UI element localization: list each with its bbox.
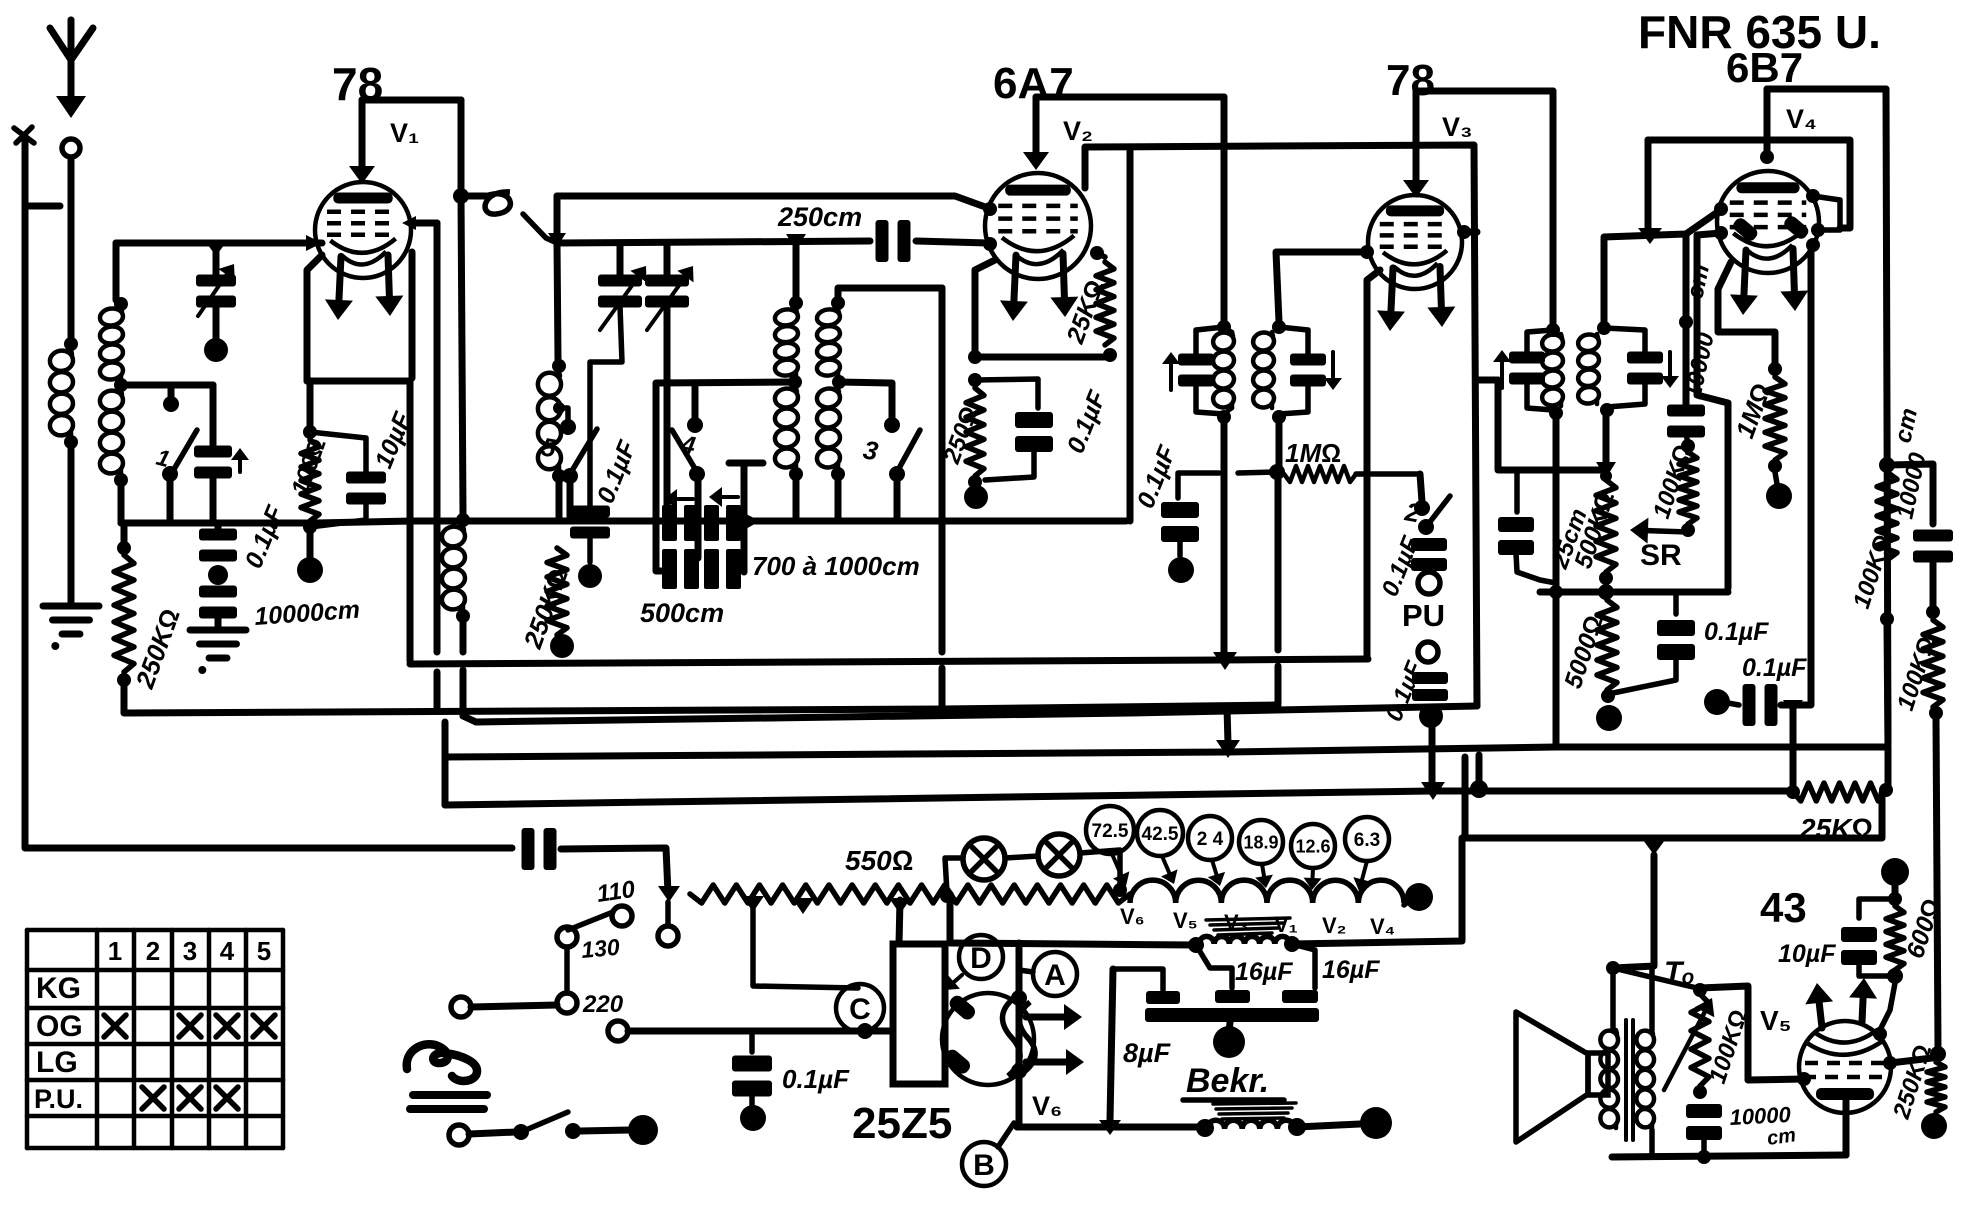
capacitor C2 padder xyxy=(194,446,249,479)
arrow 42.5 xyxy=(1161,856,1178,884)
capacitor C22 01uF xyxy=(732,1056,772,1097)
svg-text:SR: SR xyxy=(1640,539,1682,572)
label 0.1uF band xyxy=(592,436,642,507)
node V5 right xyxy=(1883,1056,1897,1070)
coil L6b xyxy=(816,387,841,469)
svg-text:18.9: 18.9 xyxy=(1243,832,1278,852)
label 16uF b xyxy=(1322,956,1380,984)
resistor R4 25K xyxy=(1096,262,1114,345)
wire C24 down xyxy=(1701,1138,1707,1157)
node x1556 y592 xyxy=(1549,585,1563,599)
resistor R5 250 xyxy=(966,388,984,476)
wire trimmerB down xyxy=(664,306,671,521)
label 43 xyxy=(1760,884,1807,931)
wire B+ stem xyxy=(1892,884,1899,893)
label 250KOhm R3 xyxy=(517,565,574,653)
coil T1 secondary xyxy=(1252,331,1275,409)
node avc top junction xyxy=(1879,457,1895,473)
wire rail2 to L4 xyxy=(557,243,558,360)
node R9 bottom xyxy=(1768,459,1782,473)
circled 42.5 xyxy=(1137,810,1183,856)
wire T1p cap leads xyxy=(1196,327,1224,414)
svg-text:3: 3 xyxy=(183,936,197,966)
wire switch5 down xyxy=(567,482,574,521)
node B+ terminal xyxy=(1881,858,1909,886)
node switch5 bottom contact xyxy=(562,468,578,484)
gang cap top row xyxy=(662,505,741,541)
label 250cm xyxy=(777,202,862,232)
tube V2 6A7 xyxy=(985,173,1091,279)
switch power xyxy=(449,1112,658,1145)
ground antenna xyxy=(43,606,99,650)
label V2 xyxy=(1063,116,1093,146)
label 0.1uF V4d2 xyxy=(1742,654,1807,682)
wire 16uF3 lead xyxy=(1292,944,1315,988)
wire x1604 to T2s xyxy=(1601,239,1608,324)
svg-text:1MΩ: 1MΩ xyxy=(1285,438,1341,468)
wire V2 avc hang xyxy=(1127,147,1134,521)
wire rail1 V1 to V2 xyxy=(461,192,557,243)
node L3 bottom xyxy=(456,609,470,623)
wire V1 box top xyxy=(362,97,461,104)
tap 550 a xyxy=(742,896,764,912)
node switch2 bottom xyxy=(1418,519,1434,535)
node filter terminal xyxy=(1213,1026,1245,1058)
lamp 2 xyxy=(1038,834,1080,876)
wire A stub xyxy=(1019,970,1033,972)
arrow 18.9 xyxy=(1255,864,1273,888)
label 6A7 xyxy=(993,59,1074,108)
wire C11 stem xyxy=(1177,539,1183,556)
tube V4 6B7 xyxy=(1717,171,1819,273)
table X OG3 xyxy=(179,1015,201,1037)
node L2 bottom xyxy=(114,473,128,487)
wire V1 cathode down xyxy=(307,255,322,381)
node V6 T xyxy=(1099,1120,1121,1135)
capacitor C16 25cm stem xyxy=(1514,470,1520,512)
node switch2 top xyxy=(1414,500,1430,516)
wire cathode box top xyxy=(307,378,410,385)
coil L4 xyxy=(536,371,562,471)
label 220 xyxy=(582,991,624,1018)
wire C19 left xyxy=(1728,703,1739,705)
wire x1648 down xyxy=(1645,140,1652,230)
wire L5 tap left xyxy=(656,382,795,467)
node R1 top xyxy=(117,541,131,555)
wire PU feed xyxy=(1420,474,1422,502)
arrow 72.5 xyxy=(1112,854,1129,886)
wire R1 top xyxy=(121,523,128,550)
svg-text:V₅: V₅ xyxy=(1760,1005,1792,1036)
node R9 terminal xyxy=(1766,483,1792,509)
circle 220 xyxy=(557,993,577,1013)
node cathode junction1 xyxy=(968,350,982,364)
node bus1 T1 junction xyxy=(1213,652,1237,670)
circle 110 xyxy=(612,906,632,926)
circle 130 xyxy=(557,927,577,947)
label 10000cm right xyxy=(1889,406,1931,522)
node R14 terminal xyxy=(1921,1113,1947,1139)
node V2 cathode terminal xyxy=(964,485,988,509)
power plug squiggle xyxy=(407,1044,477,1081)
wire L6 to rail3 xyxy=(835,480,842,521)
node L6 top xyxy=(831,296,845,310)
label C.1uF xyxy=(1704,618,1769,646)
node C24 rail xyxy=(1697,1150,1711,1164)
arrow 24 xyxy=(1208,860,1225,886)
label V4 xyxy=(1786,104,1817,134)
capacitor C1 trimmer xyxy=(196,264,236,316)
node A pin1 xyxy=(1011,990,1027,1006)
label 0.1uF C11 xyxy=(1132,441,1182,512)
coil L2b xyxy=(99,389,125,475)
wire V3 box top xyxy=(1416,88,1553,95)
capacitor C6 01uF xyxy=(570,506,610,539)
speaker coil left xyxy=(1599,1029,1619,1128)
capacitor C17 01uF xyxy=(1657,620,1695,660)
wire V1 anode top xyxy=(349,100,375,184)
node L1 bottom xyxy=(64,435,78,449)
label 6B7 xyxy=(1726,44,1803,91)
table X PU4 xyxy=(216,1087,238,1109)
heater arrow 25Z5 a xyxy=(1026,1004,1082,1030)
node R1 bottom xyxy=(117,673,131,687)
node L6 bottom xyxy=(831,467,845,481)
node L3 top xyxy=(456,513,470,527)
coil L2a xyxy=(99,307,124,381)
wire L6 tap right xyxy=(839,382,892,418)
label 100KOhm SR xyxy=(1648,441,1697,521)
wire T1s down xyxy=(1276,423,1283,466)
svg-text:0.1µF: 0.1µF xyxy=(782,1064,850,1094)
switch 4 blade xyxy=(672,430,698,472)
label 10uF xyxy=(370,408,418,472)
node vol bottom xyxy=(1693,1085,1707,1099)
wire 1M left branch xyxy=(1178,472,1277,498)
svg-text:1: 1 xyxy=(108,936,122,966)
wire rail2 xyxy=(557,241,870,243)
x mark top-left xyxy=(14,127,34,143)
wire tap branch down xyxy=(210,385,217,448)
wire left mains xyxy=(471,1005,557,1007)
node vol top xyxy=(1693,983,1707,997)
plate 16uF3 xyxy=(1282,990,1318,1003)
capacitor C14 T2p xyxy=(1493,350,1545,388)
node 5000 top junction xyxy=(1598,584,1614,600)
wire T1 feed xyxy=(1221,97,1228,322)
node bus3 triangle xyxy=(1216,740,1240,758)
wire T2s to pot xyxy=(1603,416,1610,466)
label 5000Ohm xyxy=(1559,612,1609,692)
wire C17 bottom xyxy=(1613,656,1676,693)
node 550 d xyxy=(940,889,954,903)
table row PU xyxy=(34,1084,83,1114)
gang cap arrows xyxy=(664,487,738,509)
node heater end xyxy=(1405,883,1433,911)
svg-text:6.3: 6.3 xyxy=(1354,830,1380,851)
table row LG xyxy=(36,1046,78,1079)
label 0.1uF left xyxy=(240,501,290,572)
node terminal under R2 xyxy=(297,557,323,583)
table row OG xyxy=(36,1010,83,1043)
arcs 25Z5 xyxy=(1002,998,1035,1076)
node C6 terminal xyxy=(578,564,602,588)
tube V3 78 xyxy=(1368,195,1462,289)
svg-text:110: 110 xyxy=(595,876,637,908)
wire V3 screen stub xyxy=(1464,229,1477,236)
svg-text:43: 43 xyxy=(1760,884,1807,931)
wire anode rail xyxy=(1612,1155,1846,1157)
svg-text:LG: LG xyxy=(36,1046,78,1079)
wire rail1 main xyxy=(557,196,988,208)
svg-text:V₁: V₁ xyxy=(390,118,419,148)
resistor R6 1M horizontal xyxy=(1284,466,1420,482)
label To xyxy=(1664,956,1695,989)
wire C4 bottom lead xyxy=(310,505,366,527)
label 10000cm left xyxy=(253,596,360,631)
label 10000cm V4g xyxy=(1679,262,1719,402)
wire C1 to dot xyxy=(213,306,220,338)
arrow D xyxy=(945,975,962,990)
wiper vol xyxy=(1664,998,1714,1090)
lamp 1 xyxy=(963,838,1005,880)
label 250KOhm R1 xyxy=(129,605,186,693)
heater chain bumps xyxy=(1130,880,1404,903)
wire top rail left box xyxy=(116,240,322,247)
plate 25Z5 b xyxy=(942,1047,973,1076)
node R11 bottom xyxy=(1880,612,1894,626)
wire osc return x942 xyxy=(939,288,946,708)
heater arrows V3 xyxy=(1377,266,1455,331)
wire det stub xyxy=(1477,377,1498,384)
svg-text:16µF: 16µF xyxy=(1235,958,1293,986)
label V5 xyxy=(1760,1005,1792,1036)
wire L4 to rail3 xyxy=(556,482,563,521)
plate common xyxy=(1145,1008,1319,1022)
node switch3 bottom contact xyxy=(889,466,905,482)
node cathode junction2 xyxy=(968,373,982,387)
node R2 bottom xyxy=(303,520,317,534)
node bus4 x1479 dot xyxy=(1470,780,1488,798)
label 130 xyxy=(580,934,621,963)
wire L6 top rail xyxy=(838,288,942,303)
capacitor C23 10uF xyxy=(1841,927,1877,965)
node V3 screen xyxy=(1457,225,1471,239)
wire switch1 down xyxy=(167,480,174,522)
node R5 bottom xyxy=(968,475,982,489)
label V2 chain xyxy=(1322,913,1346,938)
heater arrow 25Z5 b xyxy=(1026,1049,1084,1075)
node C22 terminal xyxy=(740,1105,766,1131)
heater arrows V4 xyxy=(1730,249,1808,315)
node R7 bottom xyxy=(1601,689,1615,703)
node switch1 bottom contact xyxy=(162,466,178,482)
wire T1p down to bus1 xyxy=(1221,423,1228,660)
resistor R10 100K xyxy=(1923,620,1943,707)
wire 1M down to bus2 xyxy=(1275,478,1282,703)
node V2 screen dot xyxy=(1090,246,1104,260)
node T2s bottom xyxy=(1600,403,1614,417)
wire switch4 down xyxy=(695,480,702,558)
bekr coil xyxy=(1207,1120,1295,1129)
to coil right xyxy=(1635,1029,1655,1128)
resistor R2 100 xyxy=(301,440,319,521)
node bekr right xyxy=(1288,1118,1306,1136)
wire To feed xyxy=(1613,855,1654,968)
wire 16uF2 lead xyxy=(1196,945,1232,988)
wire R2 stem xyxy=(307,381,314,426)
svg-text:10µF: 10µF xyxy=(1778,940,1836,968)
wire L3 to bus2b xyxy=(463,622,476,722)
plate 25Z5 a xyxy=(947,993,978,1022)
plate 16uF2 xyxy=(1215,990,1250,1003)
table header 1 xyxy=(108,936,122,966)
svg-text:PU: PU xyxy=(1402,598,1445,633)
wire V5 right stub xyxy=(1890,1058,1932,1063)
wire 10uF bottom xyxy=(1859,963,1887,976)
wire trimmerA stem xyxy=(617,243,624,276)
label V1 xyxy=(390,118,419,148)
wire V4 grid line xyxy=(1604,209,1722,237)
node T1 primary bottom xyxy=(1217,410,1231,424)
node V4 right pin1 xyxy=(1806,189,1820,203)
wire V2 cathode xyxy=(975,260,995,352)
table X OG1 xyxy=(104,1015,126,1037)
svg-text:KG: KG xyxy=(36,972,81,1005)
wire bekr right xyxy=(1297,1124,1360,1127)
potentiometer 100K vol xyxy=(1691,994,1709,1086)
wire V4 rail2 xyxy=(1648,140,1850,228)
table X OG4 xyxy=(216,1015,238,1037)
wire V6 line xyxy=(1017,1124,1203,1127)
capacitor C9 T1p xyxy=(1162,352,1214,390)
wire A line xyxy=(1016,943,1023,1124)
circled D xyxy=(959,935,1003,979)
wire C22 tail xyxy=(749,1093,755,1106)
svg-text:130: 130 xyxy=(580,934,621,963)
node T2 primary top xyxy=(1546,323,1560,337)
wire grid line below bus1 xyxy=(434,672,441,708)
wire V2 grid cap line xyxy=(1085,145,1477,706)
wire V5 anode down xyxy=(1843,1100,1850,1155)
svg-text:V₂: V₂ xyxy=(1322,913,1346,938)
wire avc down xyxy=(1887,625,1888,744)
label V5 chain xyxy=(1173,908,1198,933)
table grid xyxy=(27,930,283,1148)
resistor R3 250K xyxy=(547,548,567,635)
label 0.1uF V2k xyxy=(1062,386,1112,457)
circle PU jack bottom xyxy=(1418,642,1438,662)
label 100KOhm r1 xyxy=(1848,531,1897,611)
wire rect out xyxy=(947,896,954,941)
circled 72.5 xyxy=(1086,806,1134,854)
label 500cm xyxy=(640,598,724,628)
node V4 right pin2 xyxy=(1811,223,1825,237)
switch 3 blade xyxy=(861,430,920,472)
node switch3 top contact xyxy=(884,417,900,433)
wire 01uF C stem xyxy=(749,1031,755,1052)
label FNR 635 U xyxy=(1638,6,1881,58)
wiper arrow SR xyxy=(1630,518,1688,544)
wire T2p cap leads xyxy=(1527,330,1553,410)
node antenna-coil top xyxy=(64,337,78,351)
node R12 left xyxy=(1786,785,1800,799)
node rail2 start xyxy=(548,233,566,247)
circle PU jack top xyxy=(1418,572,1440,594)
svg-text:550Ω: 550Ω xyxy=(845,845,913,876)
heater arrows V5 xyxy=(1805,978,1877,1028)
node rail2 junction L5 xyxy=(786,234,806,250)
wire V1 box right down xyxy=(458,100,465,196)
switch blade 130-110 xyxy=(568,912,613,930)
node T2 primary bottom xyxy=(1549,406,1563,420)
capacitor C250cm xyxy=(876,220,911,262)
node choke left xyxy=(1188,937,1204,953)
wire 130-220 xyxy=(564,947,570,993)
circle left mains xyxy=(451,997,471,1017)
label 8uF xyxy=(1123,1038,1172,1068)
rect 25Z5 plate box xyxy=(893,944,945,1084)
wire det line xyxy=(1498,380,1601,470)
node mains T xyxy=(658,886,680,902)
wire grid line down x437 xyxy=(434,223,441,652)
capacitor C20 10000cm xyxy=(1913,530,1953,563)
wire B stub xyxy=(998,1123,1014,1147)
wire T2 feed xyxy=(1550,91,1557,324)
capacitor C3b xyxy=(199,586,237,619)
diode plates V4 xyxy=(1731,214,1811,243)
wire rail2 after cap xyxy=(916,241,988,243)
rheostat 550 xyxy=(690,885,1130,903)
wire antenna down xyxy=(68,158,75,338)
wire lamp link xyxy=(1005,856,1038,858)
circle C terminal xyxy=(608,1021,628,1041)
svg-text:12.6: 12.6 xyxy=(1295,836,1330,856)
wire lamp right xyxy=(1080,850,1120,888)
wire L5 stem xyxy=(793,241,800,298)
wire left box left side xyxy=(113,243,120,300)
wire lamp branch xyxy=(945,858,962,893)
circled 24 xyxy=(1188,816,1232,860)
arrow 6.3 xyxy=(1353,861,1370,891)
coil L5a xyxy=(774,308,799,377)
gang cap right bracket xyxy=(729,463,763,572)
svg-text:8µF: 8µF xyxy=(1123,1038,1172,1068)
resistor R8 100K xyxy=(1679,452,1697,524)
svg-text:78: 78 xyxy=(1386,56,1435,105)
label 0.1uF PU2 xyxy=(1381,657,1430,726)
wire V2 anode xyxy=(1023,97,1049,170)
node T1 primary top xyxy=(1217,320,1231,334)
tap 550 c xyxy=(889,898,911,914)
wire L4 tap xyxy=(559,408,568,420)
speaker core xyxy=(1626,1020,1633,1140)
wire vol to To xyxy=(1613,968,1697,988)
node switch5 top contact xyxy=(560,419,576,435)
wire mains circle stub xyxy=(665,902,671,925)
capacitor C3a xyxy=(199,529,237,562)
label 100KOhm vol xyxy=(1704,1006,1753,1086)
capacitor C12 PU top xyxy=(1411,538,1447,571)
gang cap left bracket xyxy=(656,467,666,571)
wire V2 box top xyxy=(1036,94,1224,101)
capacitor C24 gridleak xyxy=(1686,1104,1722,1140)
svg-text:FNR 635 U.: FNR 635 U. xyxy=(1638,6,1881,58)
wire C feed xyxy=(753,908,858,988)
wire V4 right down xyxy=(1886,89,1888,744)
coil L3 output xyxy=(441,525,467,611)
switch 5 blade xyxy=(539,429,597,474)
